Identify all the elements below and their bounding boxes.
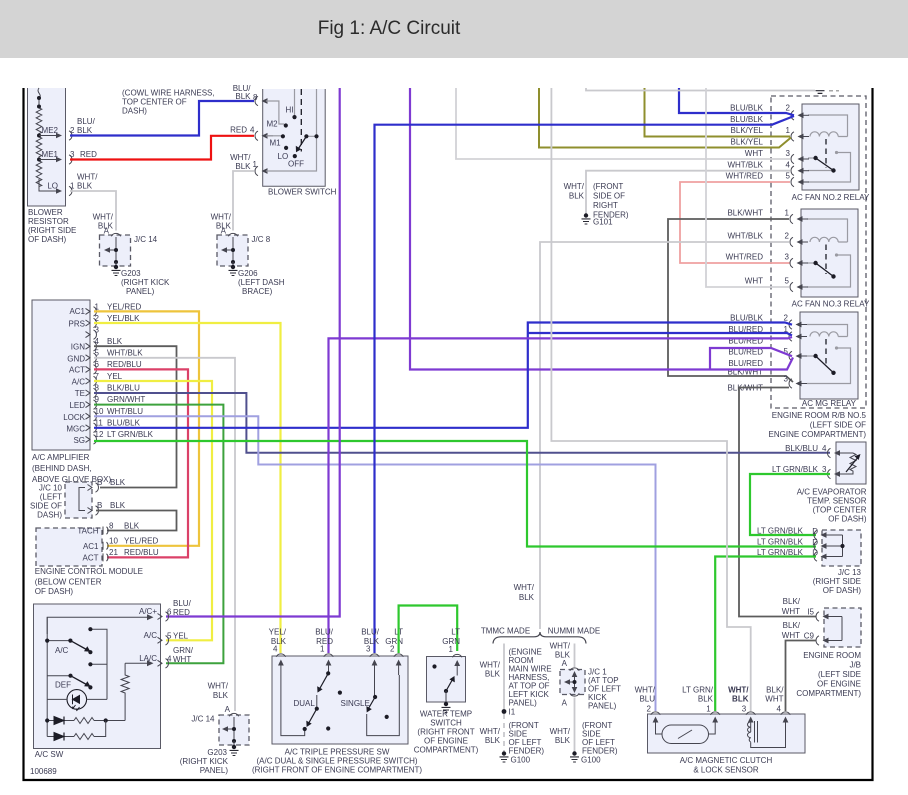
svg-text:BLK: BLK [110,501,126,510]
A/C SW diode resistor row 2 [47,721,105,741]
svg-text:WHT/BLU: WHT/BLU [107,407,143,416]
svg-text:BLU/BLK: BLU/BLK [107,419,141,428]
svg-text:BLK: BLK [485,736,501,745]
svg-text:M2: M2 [267,120,279,129]
svg-text:1: 1 [70,182,75,191]
svg-text:4: 4 [777,705,782,714]
TMMC branch wire WHT/BLK to I1 [480,644,504,710]
svg-text:WHT: WHT [745,149,763,158]
svg-text:2: 2 [390,645,395,654]
A/C amplifier pin 11 MGC [66,419,140,434]
svg-text:FENDER): FENDER) [582,747,618,756]
wire WHT/BLK resistor pin1 down to J/C 14 [70,191,116,231]
evaporator sensor thermistor element [838,453,861,474]
A/C SW pin 6 A/C+ [139,599,192,621]
svg-text:COMPARTMENT): COMPARTMENT) [796,689,861,698]
wire RED/BLU amp pin6 to ECM pin 21 [94,369,188,557]
label BLU/RED at MG relay pin 1 lower [728,337,763,346]
svg-text:(LEFT SIDE: (LEFT SIDE [818,670,861,679]
AC fan no.3 relay pin 3 [785,253,808,268]
evaporator sensor pin 4 [785,444,845,458]
svg-text:WATER TEMP: WATER TEMP [420,710,472,719]
svg-text:WHT/: WHT/ [480,727,501,736]
svg-text:BLK: BLK [732,695,749,704]
ground G100 left [500,751,531,764]
svg-text:100689: 100689 [30,767,57,776]
svg-text:A/C+: A/C+ [139,607,157,616]
svg-text:10: 10 [109,537,118,546]
blower resistor tap LO [39,179,62,194]
A/C amplifier pin 1 AC1 [69,303,141,317]
AC fan no.2 relay pin 5 [786,172,809,187]
svg-text:ENGINE CONTROL MODULE: ENGINE CONTROL MODULE [35,567,143,576]
ECM pin AC1 (10 YEL/RED) [83,537,159,552]
svg-text:RED: RED [80,150,97,159]
NUMMI branch wire WHT/BLK to J/C 1 [550,642,575,669]
svg-text:J/B: J/B [849,661,861,670]
wire BLK/WHT J/B pin C9 to magnetic clutch pin 4 [786,641,817,712]
wire BLK/WHT MG relay pin3 down to engine room J/B I5 [739,388,816,617]
svg-text:WHT/: WHT/ [480,661,501,670]
J/C 10 pin B upper [88,478,126,492]
svg-text:GRN/: GRN/ [173,646,194,655]
svg-text:BLK: BLK [485,670,501,679]
svg-text:A/C: A/C [55,646,69,655]
svg-text:2: 2 [784,314,789,323]
pressure switch pin 2 [394,654,403,675]
svg-text:(RIGHT FRONT: (RIGHT FRONT [417,728,474,737]
svg-text:9: 9 [95,395,100,404]
svg-text:(RIGHT SIDE: (RIGHT SIDE [813,577,861,586]
svg-text:4: 4 [95,337,100,346]
svg-text:A/C MAGNETIC CLUTCH: A/C MAGNETIC CLUTCH [680,756,773,765]
engine control module dashed box [35,528,143,596]
svg-text:WHT/RED: WHT/RED [726,253,764,262]
J/C 13 pin D lower [757,548,832,561]
J/C 1 internal wiring [564,671,577,693]
AC MG relay box [800,312,858,408]
svg-text:A: A [225,705,231,714]
svg-text:3: 3 [70,150,75,159]
wire WHT/BLK amp pin5 to lower J/C 14 [94,358,235,711]
A/C SW DEF selector switch [47,674,92,690]
svg-text:WHT: WHT [745,277,763,286]
svg-text:HI: HI [286,106,294,115]
svg-text:BLK: BLK [213,691,229,700]
svg-text:BLK/BLU: BLK/BLU [785,444,818,453]
label BLU/RED at MG relay pin 1 upper [728,325,763,334]
svg-text:3: 3 [366,645,371,654]
svg-text:BLU/BLK: BLU/BLK [730,104,764,113]
A/C SW LA/C resistor [121,660,153,720]
svg-text:WHT/: WHT/ [635,686,656,695]
label WHT/BLK at lower J/C 14 [208,682,231,715]
water temp switch contact [432,664,454,702]
svg-text:J/C 14: J/C 14 [191,715,215,724]
svg-text:Fig 1: A/C Circuit: Fig 1: A/C Circuit [318,18,461,39]
svg-text:A/C SW: A/C SW [35,750,64,759]
svg-text:WHT/: WHT/ [514,583,535,592]
label BLK/WHT at MG relay pin 3 lower [727,384,763,393]
svg-text:YEL: YEL [107,372,123,381]
AC fan no.3 relay box [792,209,870,309]
svg-text:AC1: AC1 [83,542,99,551]
svg-text:LT GRN/BLK: LT GRN/BLK [757,538,804,547]
J/C 13 pin D upper [757,527,832,540]
clutch coil [748,721,758,743]
wire RED resistor pin3 to blower switch pin 4 [70,136,254,160]
svg-text:PANEL): PANEL) [509,699,538,708]
wire YEL/BLK amp pin2 to pressure switch pin 4 [94,323,281,653]
engine room J/B pin I5 [782,597,834,621]
A/C magnetic clutch and lock sensor box [648,714,806,775]
svg-text:3: 3 [784,375,789,384]
pressure switch pin 4 [276,654,285,675]
svg-text:2: 2 [785,232,790,241]
svg-text:BLU/: BLU/ [77,117,96,126]
blower resistor pin 3 [69,150,75,164]
wire BLK amp pin4 to J/C 10 pin B upper [94,346,177,487]
svg-text:A: A [562,659,568,668]
svg-text:TOP CENTER OF: TOP CENTER OF [122,98,187,107]
blower resistor pin 1 [69,182,75,196]
svg-text:WHT: WHT [782,607,800,616]
engine room J/B dashed box [796,608,861,698]
svg-text:PRS: PRS [69,320,85,329]
svg-text:TE: TE [75,389,85,398]
wire BLK/BLU amp pin8 to evaporator sensor pin 4 [94,393,830,453]
svg-text:1: 1 [95,303,100,312]
svg-text:J/C 8: J/C 8 [252,235,271,244]
svg-text:(LEFT: (LEFT [40,493,62,502]
svg-text:10: 10 [95,407,104,416]
svg-text:BLK: BLK [235,162,251,171]
wire WHT/BLK fan relay3 pin2 to TMMC/NUMMI split [540,232,789,630]
svg-text:4: 4 [822,444,827,453]
blower resistor pin 2 [69,126,75,140]
svg-text:BLK: BLK [519,593,535,602]
svg-text:WHT: WHT [782,631,800,640]
svg-text:BLK: BLK [110,478,126,487]
NUMMI front fender note [582,721,618,756]
A/C amplifier pin 5 GND [67,349,143,364]
magnetic clutch pin 1 [682,686,720,733]
wire YEL/RED amp pin1 to ECM pin 10 [94,311,199,545]
svg-text:BRACE): BRACE) [242,287,273,296]
svg-text:BLK: BLK [107,337,123,346]
svg-text:BLK/: BLK/ [766,686,784,695]
blower resistor tap ME2 [39,126,62,138]
AC fan no.2 relay internal wiring [808,115,851,182]
wire LT GRN/BLK evaporator pin3 to J/C 13 pin D upper [750,474,830,535]
svg-text:WHT/: WHT/ [77,173,98,182]
AC fan no.3 relay pin 1 [785,209,808,224]
lock sensor connection wires [656,732,716,734]
svg-text:A/C AMPLIFIER: A/C AMPLIFIER [32,453,90,462]
pressure switch pin 3 [370,654,379,675]
svg-text:WHT/: WHT/ [208,682,229,691]
svg-text:(COWL WIRE HARNESS,: (COWL WIRE HARNESS, [122,89,215,98]
wire BLK/YEL from top (x539) to fan relay2 pin 1 [539,88,791,148]
wire BLU/BLK amp pin11 to AC MG relay pins 2 and 1 [94,323,792,428]
svg-text:WHT/: WHT/ [564,182,585,191]
svg-text:OF DASH): OF DASH) [28,235,67,244]
svg-text:I5: I5 [807,608,814,617]
svg-text:B: B [97,478,102,487]
svg-text:OF DASH): OF DASH) [823,586,862,595]
svg-text:LO: LO [47,182,58,191]
svg-text:BLK/WHT: BLK/WHT [727,209,763,218]
svg-text:BLU/: BLU/ [315,628,334,637]
AC fan no.2 relay pin 3 [786,149,809,164]
label WHT/BLK at J/C 14 [93,213,114,236]
fan relay2 fixed contact dot [835,151,838,154]
AC MG relay switch blade [813,354,835,375]
blower resistor caption [28,208,76,244]
label WHT/RED at fan relay3 pin3 [726,253,764,262]
svg-text:YEL/BLK: YEL/BLK [107,314,140,323]
A/C SW internal top rail to A/C+ [47,614,153,634]
magnetic clutch pin 2 [635,686,661,733]
svg-text:(RIGHT KICK: (RIGHT KICK [180,757,229,766]
svg-text:5: 5 [95,349,100,358]
svg-text:M1: M1 [270,139,282,148]
label BLK/WHT at MG relay pin 3 upper [727,368,763,377]
svg-text:OFF: OFF [288,160,304,169]
svg-text:BLK/: BLK/ [783,597,801,606]
A/C amplifier pin 2 PRS [69,314,141,329]
AC fan no.3 relay internal wiring [807,219,851,287]
ground G100 right [570,751,601,764]
wire LT GRN/BLK amp pin12 to J/C 13 pin D middle [94,441,816,547]
svg-text:5: 5 [167,631,172,640]
svg-text:5: 5 [785,277,790,286]
blower switch contact dots [284,123,288,127]
J/C 13 pin D middle [757,538,832,551]
svg-text:OF DASH): OF DASH) [828,515,867,524]
svg-text:TEMP. SENSOR: TEMP. SENSOR [807,497,867,506]
svg-text:D: D [812,538,818,547]
wire BLK J/C10 pin B lower to ECM pin 8 [96,511,177,531]
svg-text:A/C: A/C [72,378,86,387]
A/C amplifier pin 12 SG [73,430,153,445]
svg-text:WHT/BLK: WHT/BLK [727,161,763,170]
blower switch wiper blade [296,136,307,152]
AC fan no.2 relay pin 1 [786,126,809,141]
svg-text:5: 5 [786,172,791,181]
A/C amplifier pin 9 LED [69,395,145,410]
svg-text:3: 3 [95,326,100,335]
svg-text:COMPARTMENT): COMPARTMENT) [414,746,479,755]
svg-text:LT: LT [451,628,460,637]
svg-text:GND: GND [67,355,85,364]
svg-text:LED: LED [69,401,85,410]
ground G206 [229,265,285,296]
label YEL/BLK at pressure switch pin 4 [269,628,287,654]
svg-text:1: 1 [706,705,711,714]
A/C SW box [34,604,161,759]
label BLU/BLK wire 2 [77,117,96,135]
svg-text:AC1: AC1 [69,307,85,316]
wire WHT/BLU amp pin10 to magnetic clutch pin 2 [94,416,656,711]
wire WHT/BLK from G101 to fan relay2 pin 4 [586,161,790,215]
wire LT GRN/BLK J/C13 pin D lower to magnetic clutch pin 1 [715,557,816,712]
svg-text:8: 8 [253,93,258,102]
wire BLU/BLK from top to fan relay2 pin 2 [679,88,794,115]
wire WHT from top to fan relay3 pin 5 [706,88,789,287]
svg-text:A: A [104,227,110,236]
TMMC front fender note [509,721,545,756]
svg-text:3: 3 [822,465,827,474]
svg-text:I1: I1 [509,708,516,717]
svg-text:YEL: YEL [173,631,189,640]
engine room J/B pin C9 [782,621,834,645]
svg-text:LT GRN/BLK: LT GRN/BLK [772,465,819,474]
J/C 10 pin B lower [88,501,126,515]
wire BLK/YEL from top to fan relay2 pin 1 [645,88,791,137]
svg-text:GRN/WHT: GRN/WHT [107,395,145,404]
J/C 8 junction connector (left dash brace) [217,233,271,266]
svg-text:G203: G203 [121,269,141,278]
svg-text:6: 6 [167,608,172,617]
svg-text:(TOP CENTER: (TOP CENTER [813,506,867,515]
svg-text:LT GRN/BLK: LT GRN/BLK [757,527,804,536]
wire BLU/RED loop into MG relay pin 5 [710,348,792,370]
svg-text:2: 2 [647,705,652,714]
splice I1 [502,708,516,717]
wire WHT/BLK long run from top to magnetic clutch pin 3 [551,88,750,711]
svg-text:G101: G101 [593,218,613,227]
svg-text:RED/BLU: RED/BLU [124,548,159,557]
svg-text:BLK: BLK [569,192,585,201]
label WHT/BLK at J/C 8 [211,213,232,236]
wire BLU/RED pressure switch pin1 riser to MG relay pin 1 [329,337,793,653]
svg-text:SINGLE: SINGLE [341,699,370,708]
blower switch internal wiring [266,89,317,171]
svg-text:3: 3 [742,705,747,714]
svg-text:A: A [562,699,568,708]
svg-text:BLOWER: BLOWER [28,208,63,217]
svg-text:BLOWER SWITCH: BLOWER SWITCH [268,188,337,197]
svg-text:BLK/YEL: BLK/YEL [731,126,764,135]
svg-text:TMMC MADE: TMMC MADE [481,627,530,636]
label BLU/BLK at MG relay pin 2 [730,314,764,323]
wire WHT/RED fan relay2 pin5 to fan relay3 pin 3 [680,172,790,264]
svg-text:WHT: WHT [173,655,191,664]
blower switch box [263,89,337,197]
svg-text:BLK: BLK [698,695,714,704]
svg-text:11: 11 [95,419,104,428]
svg-text:WHT/: WHT/ [230,153,251,162]
A/C amplifier pin 10 LOCK [63,407,143,422]
AC MG relay pin 1 [784,325,807,341]
svg-text:A/C TRIPLE PRESSURE SW: A/C TRIPLE PRESSURE SW [285,748,390,757]
svg-text:(LEFT SIDE OF: (LEFT SIDE OF [810,421,866,430]
svg-text:SG: SG [73,436,85,445]
svg-text:(RIGHT SIDE: (RIGHT SIDE [28,226,76,235]
svg-text:DASH): DASH) [122,107,147,116]
A/C SW internal left rail [46,617,48,736]
AC MG relay pin 2 [784,314,807,330]
svg-text:TACH: TACH [77,527,98,536]
clutch coil to pin4 wire [751,732,786,748]
svg-text:4: 4 [250,126,255,135]
J/C 13 internal bus [830,535,845,557]
svg-text:A/C: A/C [144,631,158,640]
A/C SW diode resistor row 1 [45,717,125,725]
blower resistor junction dots [37,96,41,100]
svg-text:(RIGHT KICK: (RIGHT KICK [121,278,170,287]
blower switch selector dashed line [300,89,302,152]
AC fan no.3 relay pin 2 [785,232,808,247]
A/C evaporator temp sensor box [797,442,867,524]
svg-text:MGC: MGC [66,425,85,434]
svg-text:1: 1 [785,209,790,218]
label WHT/BLK on long run [514,583,535,602]
svg-text:ME2: ME2 [42,126,59,135]
svg-text:IGN: IGN [71,343,85,352]
svg-text:2: 2 [786,104,791,113]
ECM pin TACH (8 BLK) [77,522,139,536]
water temp switch pin 1 [453,654,462,675]
note cowl wire harness [122,89,215,116]
svg-text:RED/BLU: RED/BLU [107,360,142,369]
A/C amplifier pin 3 [86,326,100,340]
svg-text:NUMMI MADE: NUMMI MADE [548,627,600,636]
svg-text:OF DASH): OF DASH) [35,587,74,596]
blower switch pin 1 [230,153,273,176]
AC MG relay internal wiring [807,325,851,384]
svg-text:SIDE OF: SIDE OF [593,192,625,201]
blower resistor box [28,88,66,206]
AC fan no.3 relay pin 5 [785,277,808,292]
svg-text:ME1: ME1 [42,150,59,159]
svg-text:OF ENGINE: OF ENGINE [424,737,468,746]
AC MG relay fixed contact dot [835,346,838,349]
A/C amplifier pin 4 IGN [71,337,123,352]
wire GRN/WHT amp pin9 to A/C SW pin 4 [94,405,223,664]
blower resistor internal resistor element [36,88,42,191]
svg-text:G100: G100 [511,756,531,765]
svg-text:1: 1 [320,645,325,654]
svg-text:B: B [97,501,102,510]
svg-text:RED: RED [230,126,247,135]
svg-text:J/C 10: J/C 10 [39,484,63,493]
svg-text:WHT/: WHT/ [550,642,571,651]
svg-text:(FRONT: (FRONT [593,182,623,191]
svg-text:DUAL: DUAL [294,699,316,708]
label WHT/BLK wire 1 [77,173,98,191]
svg-text:8: 8 [109,522,114,531]
wire BLU/RED from top x410 to MG relay pin 5 [410,88,793,370]
label LT GRN at water temp switch pin 1 [442,628,460,655]
svg-text:BLK: BLK [77,126,93,135]
svg-text:WHT/BLK: WHT/BLK [107,349,143,358]
AC fan no.2 relay actuator dashed link [825,139,827,168]
A/C amplifier box [32,300,111,484]
svg-text:WHT/: WHT/ [728,686,749,695]
water temp switch ground [442,702,451,713]
svg-text:J/C 13: J/C 13 [838,568,862,577]
J/C 8 internal wiring [221,237,235,266]
A/C SW pin 4 LA/C [139,646,194,668]
svg-text:RESISTOR: RESISTOR [28,217,69,226]
lower J/C 14 junction connector [191,713,249,745]
blower resistor tap ME1 [39,150,62,162]
svg-text:BLK: BLK [235,92,251,101]
label LT GRN at pressure switch pin 2 [385,628,403,654]
J/C 10 junction connector (left side of dash) [30,482,92,520]
